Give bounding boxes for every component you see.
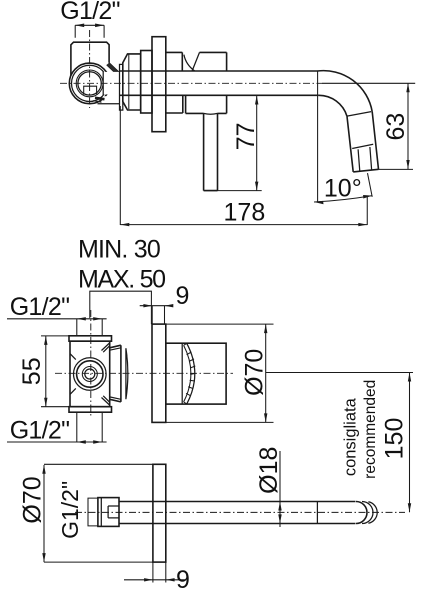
- svg-text:G1/2": G1/2": [10, 293, 70, 321]
- elbow ring circle: [72, 65, 108, 101]
- bottom view center line: [75, 511, 405, 513]
- elbow bore notch: [84, 86, 97, 94]
- spout tube (bottom view): [119, 502, 356, 524]
- cartridge housing: [166, 343, 226, 404]
- center line solid extension to 150 dim: [266, 372, 413, 374]
- svg-text:G1/2": G1/2": [57, 481, 83, 539]
- nut: [123, 54, 141, 110]
- svg-text:63: 63: [382, 113, 410, 141]
- wall flange plate: [152, 37, 166, 132]
- svg-text:MIN. 30: MIN. 30: [78, 236, 160, 264]
- svg-text:77: 77: [232, 122, 260, 150]
- lever handle tube: [204, 113, 218, 190]
- G1/2 bottom leader and legs: [7, 412, 107, 442]
- svg-text:MAX. 50: MAX. 50: [78, 265, 165, 293]
- valve body square: [70, 341, 110, 407]
- center line extension (solid) to 63 dim: [322, 82, 415, 84]
- mixer body bottom part: [166, 95, 227, 113]
- pipe whiteout over ball: [103, 72, 319, 95]
- valve vertical center line: [90, 310, 92, 418]
- valve horizontal center line: [55, 372, 233, 374]
- spout bend inner arc: [318, 95, 347, 116]
- spout down tube edges: [347, 112, 379, 172]
- inlet fitting inner box: [108, 506, 119, 518]
- dimension diam 70 (middle): [166, 324, 273, 422]
- angle arc: [314, 196, 372, 202]
- dimension 77: line and arrows: [256, 96, 258, 191]
- crescent hatching: [186, 352, 196, 396]
- dimension 10 deg: vertical extension line: [317, 71, 319, 202]
- valve top cap: [69, 336, 112, 341]
- elbow chamfer diagonals top-right: [107, 63, 120, 74]
- spout pipe bottom line: [119, 94, 318, 96]
- arrow right: [95, 24, 104, 28]
- dimension G1/2 top: line and legs: [75, 25, 104, 38]
- washer: [120, 64, 123, 110]
- spout axis diagonal: [368, 173, 373, 197]
- dimension 63: line, arrows, extension: [379, 83, 414, 169]
- svg-text:recommended: recommended: [362, 380, 379, 479]
- handle diagonal: [192, 52, 199, 71]
- body block behind wall: [141, 51, 152, 114]
- mixer body front of wall: top part: [166, 52, 227, 71]
- dimension 9 (bottom): [124, 562, 186, 582]
- G1/2 bracket: [88, 498, 98, 526]
- spout tip face: [353, 169, 378, 172]
- dimension diam 70 bottom: [44, 464, 153, 562]
- svg-text:G1/2": G1/2": [10, 417, 70, 445]
- arrow left: [75, 24, 84, 28]
- pipe end face in bore: [102, 72, 104, 96]
- elbow ball outer circle: [69, 63, 110, 104]
- G1/2 leader and legs: [7, 319, 107, 336]
- aerator insert: [358, 147, 372, 171]
- dimension diam 18: [279, 451, 281, 527]
- dimension 9 (wall flange thickness): [140, 306, 173, 324]
- valve corner braces: [70, 343, 109, 405]
- svg-text:9: 9: [176, 282, 190, 310]
- valve side port: [110, 345, 121, 402]
- svg-text:consigliata: consigliata: [342, 397, 360, 476]
- svg-text:178: 178: [224, 199, 266, 227]
- dimension 178: line, arrows, left extension: [120, 106, 367, 225]
- inlet fitting square: [98, 498, 119, 527]
- elbow lower collar band: [98, 103, 120, 105]
- svg-text:150: 150: [381, 418, 409, 460]
- vertical link to 178 line: [366, 197, 368, 225]
- svg-text:10°: 10°: [324, 175, 362, 203]
- dimension 55: [41, 336, 70, 407]
- elbow body square: [71, 42, 109, 75]
- svg-text:G1/2": G1/2": [60, 0, 120, 25]
- spout pipe top line: [119, 70, 317, 72]
- handle dome arc: [184, 55, 195, 71]
- tube rounded tip arcs: [356, 502, 367, 524]
- dimension 150: [409, 373, 411, 513]
- pipe center line (dash-dot): [60, 82, 322, 84]
- svg-text:55: 55: [18, 357, 46, 385]
- elbow bore circles: [76, 70, 103, 97]
- svg-text:Ø70: Ø70: [241, 349, 269, 396]
- elbow vertical center line: [89, 30, 91, 108]
- housing crescent arcs: [187, 343, 195, 404]
- tube joint line: [316, 502, 318, 524]
- min/max bracket: [90, 291, 152, 324]
- extension line at lever bottom: [204, 190, 262, 192]
- elbow socket wedge (shaded chamfer): [95, 98, 105, 99]
- svg-text:Ø18: Ø18: [255, 447, 283, 494]
- svg-text:9: 9: [176, 566, 190, 594]
- spout joint lines: [347, 112, 373, 149]
- wall flange (bottom view): [153, 464, 166, 562]
- valve bottom cap: [69, 407, 112, 413]
- svg-text:Ø70: Ø70: [19, 476, 47, 523]
- spout bend outer arc: [318, 71, 373, 112]
- valve circles: [74, 358, 107, 391]
- wall flange plate (middle view): [152, 324, 166, 422]
